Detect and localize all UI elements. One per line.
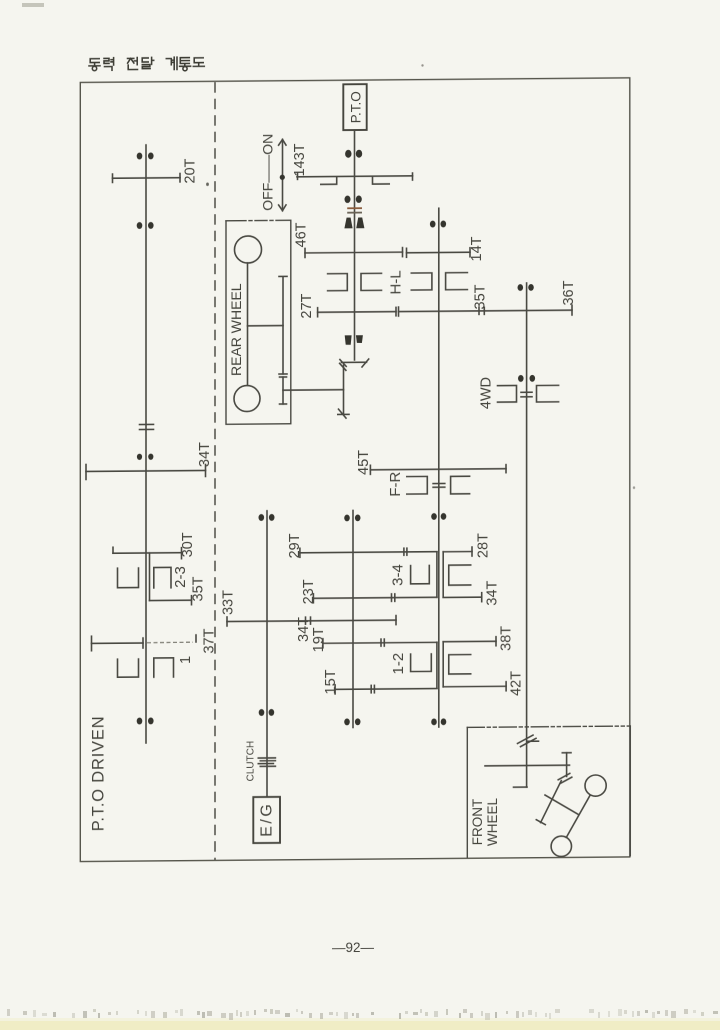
svg-text:35T: 35T [190,576,206,601]
bearing dots countershaft top [430,221,436,228]
front bevel marks on 4WD shaft [518,735,534,743]
engine shaft [266,511,268,797]
rear wheel circle top [235,236,262,263]
svg-text:15T: 15T [323,669,339,694]
rear drive link horizontal [283,389,344,392]
svg-text:REAR WHEEL: REAR WHEEL [228,283,244,376]
front bevel mesh marks [558,773,570,779]
rear axle mid connector [248,325,284,327]
svg-text:E/G: E/G [259,802,276,837]
bearing dots countershaft bottom [431,718,437,725]
4WD coupling marks [521,391,532,393]
gear 38T line [443,640,496,642]
svg-text:WHEEL: WHEEL [485,797,500,846]
bearing dots engine shaft bottom [259,709,265,716]
svg-text:143T: 143T [292,143,308,176]
front wheel circle top [585,775,606,796]
38T-42T unit frame [442,642,444,687]
gear 45T line [370,469,506,470]
rear drive bevel drop line [343,365,345,414]
gear 34T line [86,470,206,471]
svg-text:1: 1 [178,656,194,664]
svg-text:FRONT: FRONT [470,799,485,846]
left shaft (PTO driven) [145,145,147,743]
sleeve 1 left [118,659,139,677]
rear wheel circle bottom [234,385,260,411]
F-R sleeve right [451,476,470,494]
bearing dots engine shaft top [259,514,265,521]
bearing dots left shaft top [137,153,143,160]
gear 34T line right [443,596,482,598]
svg-text:F-R: F-R [387,471,404,496]
svg-text:OFF——ON: OFF——ON [260,134,276,211]
stray speck 3 [633,486,635,489]
svg-text:30T: 30T [180,532,196,557]
stray speck 1 [206,182,209,186]
title 력 [104,58,114,71]
svg-text:2-3: 2-3 [172,566,189,588]
countershaft [438,208,440,727]
bevel tee at PTO shaft end [342,361,367,363]
front wheel circle bottom [551,836,571,857]
title 계 [166,57,177,69]
bevel gear pair on PTO shaft [344,218,352,229]
sleeve 28T-34T [449,565,471,585]
rear drive link vertical [282,377,284,404]
front drive crossbar [485,764,570,767]
front kingpin link [541,781,562,823]
H-L sleeve left [361,273,382,290]
svg-text:H-L: H-L [387,270,404,294]
4WD sleeve right [537,385,559,402]
bottom yellow band [0,1021,720,1030]
main shaft [352,510,354,727]
svg-text:42T: 42T [509,671,525,696]
bearing dots [137,454,142,460]
svg-text:36T: 36T [561,280,577,305]
gear 20T [113,177,181,180]
F-R coupling marks [433,482,445,484]
H-L sleeve far right [446,273,468,290]
clutch marks [258,757,275,759]
svg-text:P.T.O: P.T.O [348,91,363,123]
title 전 [128,57,138,69]
gear 143T line [297,175,413,178]
mesh marker 35T [478,307,480,314]
svg-text:34T: 34T [197,442,213,467]
svg-text:45T: 45T [356,450,372,475]
sleeve 2-3 left [118,568,139,588]
sleeve 3-4 [411,565,430,583]
4WD sleeve left [498,385,517,402]
3-4 unit frame [436,552,438,598]
stray speck 2 [421,64,423,66]
gear 35T line of 2-3 unit [150,599,192,601]
dashed divider line [214,82,216,860]
front wheel box top chain line [467,726,630,727]
H-L sleeve far left [328,274,348,291]
gear 23T line [313,597,391,600]
rear axle line [247,263,249,386]
F-R sleeve left [407,476,428,494]
frame border [80,78,630,862]
sleeve 2-3 right [154,567,171,588]
svg-text:19T: 19T [311,627,327,652]
title 도 [193,58,204,67]
sleeve 1-2 [411,654,432,672]
svg-text:27T: 27T [299,293,315,318]
gear 30T line [113,552,182,555]
bearing dots PTO upper [345,150,351,158]
bearing dots 4WD clutch [518,375,524,382]
bearing dots main shaft bottom [344,718,350,725]
top-left scan speck [22,3,44,7]
svg-text:38T: 38T [498,626,514,651]
svg-text:34T: 34T [485,580,501,605]
gear 35T-36T line [399,310,573,311]
svg-text:4WD: 4WD [478,377,494,409]
P.T.O box [343,84,366,130]
bearing dots left shaft bottom [137,718,143,725]
title 동 [89,59,100,71]
PTO coupling marks [347,207,362,209]
svg-text:23T: 23T [301,579,317,604]
mesh marker 29T [403,548,405,555]
rear wheel box [226,220,291,424]
bevel gear pair lower on PTO shaft [345,335,352,345]
shaft coupling ticks [140,423,154,425]
mesh marker 33T-34T [305,617,307,624]
svg-text:28T: 28T [475,533,491,558]
1-2 unit frame [436,642,438,688]
OFF-ON arrow dot [280,175,285,180]
title 달 [142,57,154,68]
svg-text:46T: 46T [294,222,310,247]
bearing dots PTO lower [345,196,351,203]
gear 28T line [443,551,472,553]
PTO dog hook left [321,176,337,184]
gear 37T line [92,642,144,644]
svg-text:CLUTCH: CLUTCH [246,741,257,782]
svg-text:P.T.O DRIVEN: P.T.O DRIVEN [89,716,107,832]
gear 46T line [305,251,403,254]
front wheel box left edge [466,727,468,857]
svg-text:14T: 14T [469,236,485,261]
front axle housing diagonal [545,795,578,815]
title 통 [180,58,191,71]
OFF-ON arrow [279,139,286,210]
mesh marker 15T [370,685,372,692]
svg-text:34T: 34T [296,617,312,642]
svg-text:37T: 37T [202,628,218,653]
28T-34T unit frame [442,552,444,598]
bearing dots [137,222,143,229]
PTO dog hook right [373,176,390,184]
svg-text:33T: 33T [221,590,237,615]
sleeve 38T-42T [449,655,471,674]
front axle diagonal [566,795,590,837]
svg-text:3-4: 3-4 [390,564,407,586]
svg-text:—92—: —92— [332,940,375,955]
4WD shaft end tick [514,786,528,788]
bearing dots main shaft top [344,515,350,522]
37T phantom continuation [147,641,193,644]
front wheel box right edge [629,726,631,856]
gear 19T line + 1-2 frame top [323,641,437,644]
gear 29T line + 3-4 frame top [300,552,437,553]
gear 27T line [318,311,396,314]
gear 15T line [335,688,374,690]
gear 42T line [443,685,506,688]
bearing dots countershaft mid [431,513,437,520]
front gear vertical [566,753,568,777]
mesh marker 23T [391,594,393,601]
svg-text:35T: 35T [472,284,488,309]
svg-text:20T: 20T [182,158,198,183]
rear axle gear bar [282,276,284,374]
4WD shaft [526,283,528,787]
gear 14T line [407,251,471,254]
connector 2-3 unit [149,553,151,601]
bearing dots 4WD top [518,284,524,291]
mesh marker 19T [380,639,382,646]
bottom speckle row [7,1009,718,1020]
PTO shaft [354,130,356,360]
H-L sleeve right [411,273,432,290]
gear 33T line [227,620,396,621]
sleeve 1 right [154,658,174,677]
E/G box [253,797,280,843]
svg-text:1-2: 1-2 [390,653,407,675]
